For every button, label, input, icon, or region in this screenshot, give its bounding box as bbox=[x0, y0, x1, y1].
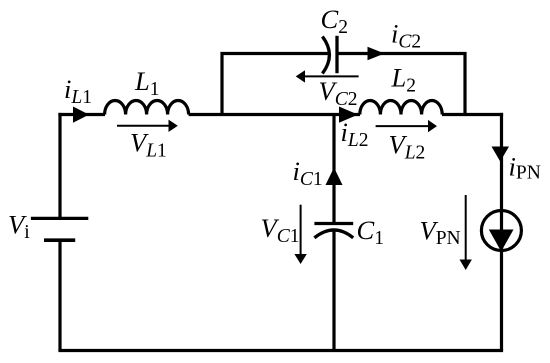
label L1 bbox=[134, 66, 160, 100]
current arrow iC1 (pointing up) bbox=[326, 168, 343, 186]
capacitor C2 curved plate bbox=[322, 37, 329, 74]
wire top rail middle segment bbox=[189, 113, 360, 116]
label C1 bbox=[357, 215, 384, 249]
wire top rail left segment bbox=[58, 113, 105, 116]
current source PN circle bbox=[481, 211, 521, 251]
label VL1 bbox=[130, 128, 167, 162]
label iC1 bbox=[293, 156, 323, 190]
capacitor C1 curved plate bbox=[314, 230, 353, 238]
label L2 bbox=[391, 63, 417, 97]
current arrow iL1 bbox=[73, 107, 89, 123]
current arrow iL2 bbox=[339, 107, 358, 123]
wire top rail right segment bbox=[442, 113, 503, 116]
wire left vertical bottom (battery to bottom rail) bbox=[58, 240, 61, 350]
wire left vertical top (node A to battery) bbox=[58, 113, 61, 217]
capacitor C1 flat plate bbox=[314, 222, 353, 225]
wire C2 branch left (up and across) bbox=[222, 54, 329, 115]
wire C1 branch bottom bbox=[332, 230, 335, 351]
wire bottom rail bbox=[58, 349, 503, 352]
label iPN bbox=[509, 152, 541, 184]
current source PN arrow bbox=[489, 230, 514, 252]
voltage arrow VL1 bbox=[117, 120, 178, 132]
battery source Vi long plate bbox=[31, 217, 88, 220]
label VPN bbox=[420, 216, 461, 250]
capacitor C2 flat plate bbox=[335, 36, 338, 73]
voltage arrow VC1 (pointing down) bbox=[294, 205, 306, 264]
label C2 bbox=[321, 4, 348, 38]
label iC2 bbox=[391, 18, 421, 52]
label VC1 bbox=[261, 213, 300, 247]
label Vi bbox=[8, 209, 30, 243]
current arrow iC2 bbox=[368, 47, 385, 60]
label VC2 bbox=[319, 76, 358, 110]
voltage arrow VL2 bbox=[376, 120, 437, 132]
label iL1 bbox=[64, 74, 92, 108]
label VL2 bbox=[389, 130, 426, 164]
voltage arrow VPN (pointing down) bbox=[460, 195, 472, 270]
wire C1 branch top bbox=[332, 115, 335, 223]
wire right vertical bbox=[500, 113, 503, 351]
label iL2 bbox=[341, 117, 369, 151]
wire C2 branch right (across and down) bbox=[337, 54, 465, 115]
battery source Vi short plate bbox=[44, 238, 75, 242]
current arrow iPN (pointing down) bbox=[492, 147, 510, 162]
inductor L2 bbox=[360, 100, 442, 114]
voltage arrow VC2 (pointing left) bbox=[296, 70, 359, 82]
inductor L1 bbox=[105, 101, 189, 115]
